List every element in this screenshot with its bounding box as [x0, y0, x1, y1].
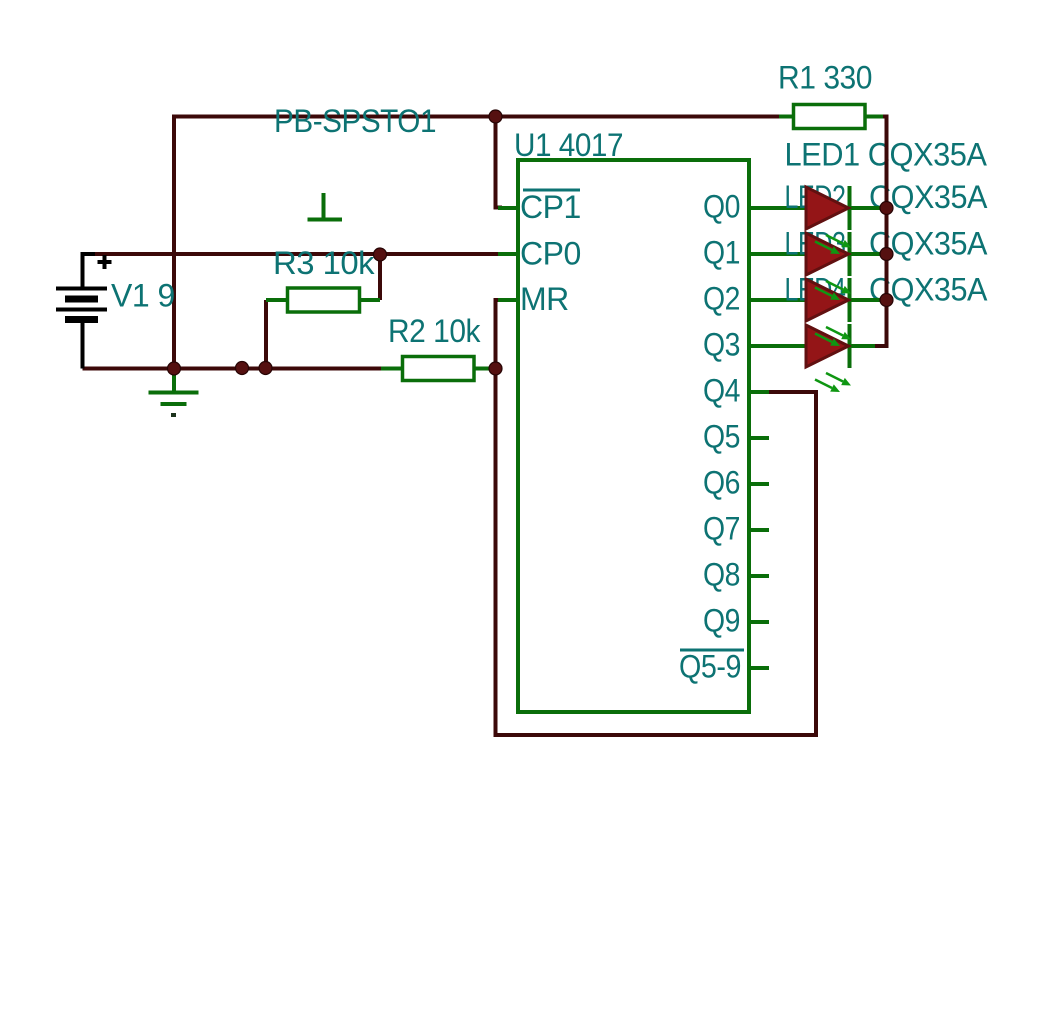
svg-text:U1 4017: U1 4017 — [514, 127, 623, 163]
LED1 cathode bar — [848, 186, 852, 230]
LED3 light arrows — [815, 327, 851, 346]
resistor R2 body — [403, 357, 475, 381]
pin stub Q9 — [749, 620, 769, 624]
wire under-IC loop from bottom junction to Q4 — [496, 369, 817, 736]
wire left vertical riser x=174 — [172, 115, 176, 369]
svg-text:Q1: Q1 — [703, 235, 740, 271]
battery V1 plate 4 thick short — [65, 316, 98, 323]
battery V1 plate 3 long — [56, 308, 107, 312]
wire bottom ground rail — [83, 367, 383, 371]
pin stub Q7 — [749, 528, 769, 532]
svg-text:PB-SPSTO1: PB-SPSTO1 — [274, 103, 436, 139]
wire CP1 feed from top junction — [496, 117, 503, 208]
LED3 triangle — [806, 279, 849, 321]
wire R3 right riser to CP0 net — [378, 254, 382, 300]
LED2 cathode wire to bus — [852, 252, 885, 256]
svg-text:Q6: Q6 — [703, 465, 740, 501]
svg-text:Q0: Q0 — [703, 189, 740, 225]
resistor R1 leads — [779, 115, 884, 119]
junction node R3 bottom — [259, 362, 272, 375]
pin wire Q2 to LED3 anode — [749, 298, 807, 302]
LED2 triangle — [806, 233, 849, 275]
LED4 triangle — [806, 325, 849, 367]
ground symbol stem — [172, 369, 176, 393]
junction node bus LED2 — [880, 248, 893, 261]
resistor R2 leads — [381, 367, 495, 371]
battery V1 plate 2 thick short — [65, 296, 98, 303]
svg-text:CP0: CP0 — [520, 236, 581, 272]
resistor R3 body — [288, 288, 360, 312]
pin wire Q1 to LED2 anode — [749, 252, 807, 256]
LED1 triangle — [806, 187, 849, 229]
svg-text:Q9: Q9 — [703, 603, 740, 639]
pushbutton PB-SPSTO1 actuator symbol — [308, 193, 343, 220]
svg-text:CP1: CP1 — [520, 189, 581, 225]
pin stub Q5 — [749, 436, 769, 440]
battery V1 top lead and corner — [83, 254, 96, 289]
wire top rail from vertical riser to R1 — [174, 115, 781, 119]
battery V1 plate 1 long — [56, 287, 107, 291]
LED2 cathode bar — [848, 232, 852, 276]
svg-text:Q8: Q8 — [703, 557, 740, 593]
pin wire Q3 to LED4 anode — [749, 344, 807, 348]
svg-text:Q5-9: Q5-9 — [679, 649, 741, 685]
svg-text:R3 10k: R3 10k — [273, 245, 376, 281]
pin stub Q5-9 — [749, 666, 769, 670]
pin stub CP0 — [498, 252, 518, 256]
pin wire Q0 to LED1 anode — [749, 206, 807, 210]
wire CP0 feed from battery plus — [83, 252, 501, 256]
svg-text:Q7: Q7 — [703, 511, 740, 547]
pin stub Q6 — [749, 482, 769, 486]
battery V1 plus sign — [98, 255, 112, 269]
junction node ground — [168, 362, 181, 375]
junction node R2 MR — [489, 362, 502, 375]
resistor R1 body — [794, 105, 866, 129]
svg-text:R2 10k: R2 10k — [388, 313, 481, 349]
pin label CP1 overline — [523, 189, 580, 192]
junction node R3 to CP0 net — [374, 248, 387, 261]
junction node ground rail A — [236, 362, 249, 375]
svg-text:Q2: Q2 — [703, 281, 740, 317]
svg-text:R1 330: R1 330 — [778, 60, 872, 96]
LED4 light arrows — [815, 373, 851, 392]
LED4 cathode bar — [848, 324, 852, 368]
LED3 cathode bar — [848, 278, 852, 322]
LED1 cathode wire to bus — [852, 206, 885, 210]
svg-text:V1 9: V1 9 — [111, 278, 175, 314]
LED2 light arrows — [815, 281, 851, 300]
wire R3 left drop to ground rail — [264, 300, 268, 369]
svg-text:Q5: Q5 — [703, 419, 740, 455]
svg-text:Q3: Q3 — [703, 327, 740, 363]
wire MR feed from bottom junction — [496, 300, 503, 369]
wire LED cathode bus from R1 down to LED4 — [873, 117, 887, 347]
junction node top rail — [489, 110, 502, 123]
ground bar 1 — [149, 391, 199, 395]
resistor R3 leads — [266, 298, 380, 302]
pin stub MR — [498, 298, 518, 302]
LED3 cathode wire to bus — [852, 298, 885, 302]
svg-text:Q4: Q4 — [703, 373, 740, 409]
pin label Q5-9 overline — [680, 649, 744, 652]
ground bar 3 dot — [171, 413, 176, 417]
pin stub CP1 — [498, 206, 518, 210]
junction node bus LED1 — [880, 202, 893, 215]
pin stub Q4 — [749, 390, 769, 394]
svg-text:MR: MR — [520, 281, 569, 317]
LED4 cathode wire to bus — [852, 344, 876, 348]
IC U1 4017 box — [518, 160, 749, 712]
junction node bus LED3 — [880, 294, 893, 307]
battery V1 bottom lead — [81, 321, 85, 369]
LED1 light arrows — [815, 235, 851, 254]
pin stub Q8 — [749, 574, 769, 578]
ground bar 2 — [161, 402, 187, 406]
